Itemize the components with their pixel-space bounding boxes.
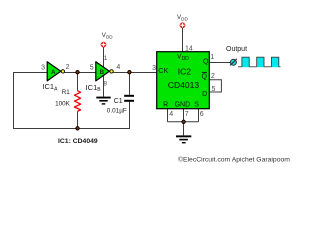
svg-text:B: B xyxy=(100,69,105,76)
svg-text:8: 8 xyxy=(103,81,107,88)
capacitor C1 xyxy=(124,95,134,102)
ground (IC2 bottom) xyxy=(176,135,191,143)
wire: input of IC1A from feedback net xyxy=(14,72,48,74)
svg-text:©ElecCircuit.com Apichet Garai: ©ElecCircuit.com Apichet Garaipoom xyxy=(178,155,290,163)
svg-text:4: 4 xyxy=(116,64,120,71)
wire: left vertical feedback xyxy=(13,72,15,129)
svg-text:R: R xyxy=(163,102,168,109)
wire: VDD to IC1B pin1 xyxy=(103,47,105,67)
svg-text:Output: Output xyxy=(226,46,247,53)
wire: bottom pins common bar xyxy=(168,121,199,123)
inversion bubble IC1B xyxy=(110,70,113,73)
svg-text:IC1: CD4049: IC1: CD4049 xyxy=(58,138,98,145)
svg-text:4: 4 xyxy=(169,111,173,118)
svg-text:Q: Q xyxy=(203,59,209,66)
wire: IC2 pin4 stub xyxy=(167,109,169,122)
svg-text:CK: CK xyxy=(158,66,168,75)
svg-text:S: S xyxy=(194,102,199,109)
output waveform xyxy=(238,57,281,67)
wire: IC1A output to IC1B input xyxy=(65,72,96,74)
svg-text:IC2: IC2 xyxy=(178,67,192,77)
inverter IC1B xyxy=(96,62,110,81)
IC2 CD4013 body xyxy=(157,52,210,109)
waveform baseline xyxy=(238,66,281,68)
svg-text:7: 7 xyxy=(185,111,189,118)
wire: bottom feedback rail xyxy=(13,128,130,130)
svg-text:3: 3 xyxy=(152,65,156,72)
svg-text:C1: C1 xyxy=(114,98,123,105)
svg-text:R1: R1 xyxy=(62,89,71,96)
svg-text:2: 2 xyxy=(211,73,215,80)
svg-text:1: 1 xyxy=(104,55,108,62)
inverter IC1A xyxy=(47,62,61,81)
svg-text:3: 3 xyxy=(41,64,45,71)
wire: IC2 pin6 stub xyxy=(198,109,200,122)
resistor R1 xyxy=(74,91,80,112)
pulse 3 xyxy=(272,57,279,67)
node: IC1A output / R1 / IC1B input xyxy=(76,71,79,74)
svg-text:6: 6 xyxy=(200,111,204,118)
wire: node to R1 top xyxy=(77,72,79,91)
power VDD (IC2 pin14) xyxy=(177,14,188,28)
svg-text:1: 1 xyxy=(210,54,214,61)
output terminal xyxy=(230,59,237,66)
power VDD (IC1B) xyxy=(101,32,113,47)
wire: node to C1 top xyxy=(129,72,131,95)
svg-text:CD4013: CD4013 xyxy=(168,80,199,90)
wire: IC2 Qbar pin2 to D pin5 loop xyxy=(209,80,221,92)
node: IC1B output / C1 xyxy=(128,71,131,74)
svg-text:A: A xyxy=(51,69,56,76)
ground (IC1B pin8) xyxy=(96,97,110,105)
svg-text:GND: GND xyxy=(175,102,191,109)
wire: IC2 Q pin1 to output terminal xyxy=(209,62,230,64)
node: R1 bottom / rail xyxy=(76,127,79,130)
svg-text:5: 5 xyxy=(90,64,94,71)
IC2 Qbar pin name xyxy=(201,72,207,80)
svg-text:Q: Q xyxy=(201,73,207,80)
wire: IC1B pin8 to ground xyxy=(103,75,105,96)
wire: common bar to ground xyxy=(183,122,185,136)
svg-text:100K: 100K xyxy=(55,100,71,107)
inversion bubble IC1A xyxy=(61,70,64,73)
svg-text:14: 14 xyxy=(185,46,193,53)
wire: VDD to IC2 pin14 xyxy=(182,28,184,52)
svg-text:0.01µF: 0.01µF xyxy=(107,108,127,115)
pulse 1 xyxy=(242,57,249,67)
wire: R1 bottom to rail xyxy=(77,111,79,128)
wire: IC1B output to IC2 CK xyxy=(113,72,156,74)
svg-text:D: D xyxy=(202,91,207,98)
pulse 2 xyxy=(257,57,264,67)
wire: C1 bottom to rail xyxy=(129,102,131,129)
wire: IC2 pin7 stub xyxy=(183,109,185,122)
node: IC2 ground bar xyxy=(182,120,185,123)
svg-text:2: 2 xyxy=(66,64,70,71)
svg-text:5: 5 xyxy=(212,86,216,93)
